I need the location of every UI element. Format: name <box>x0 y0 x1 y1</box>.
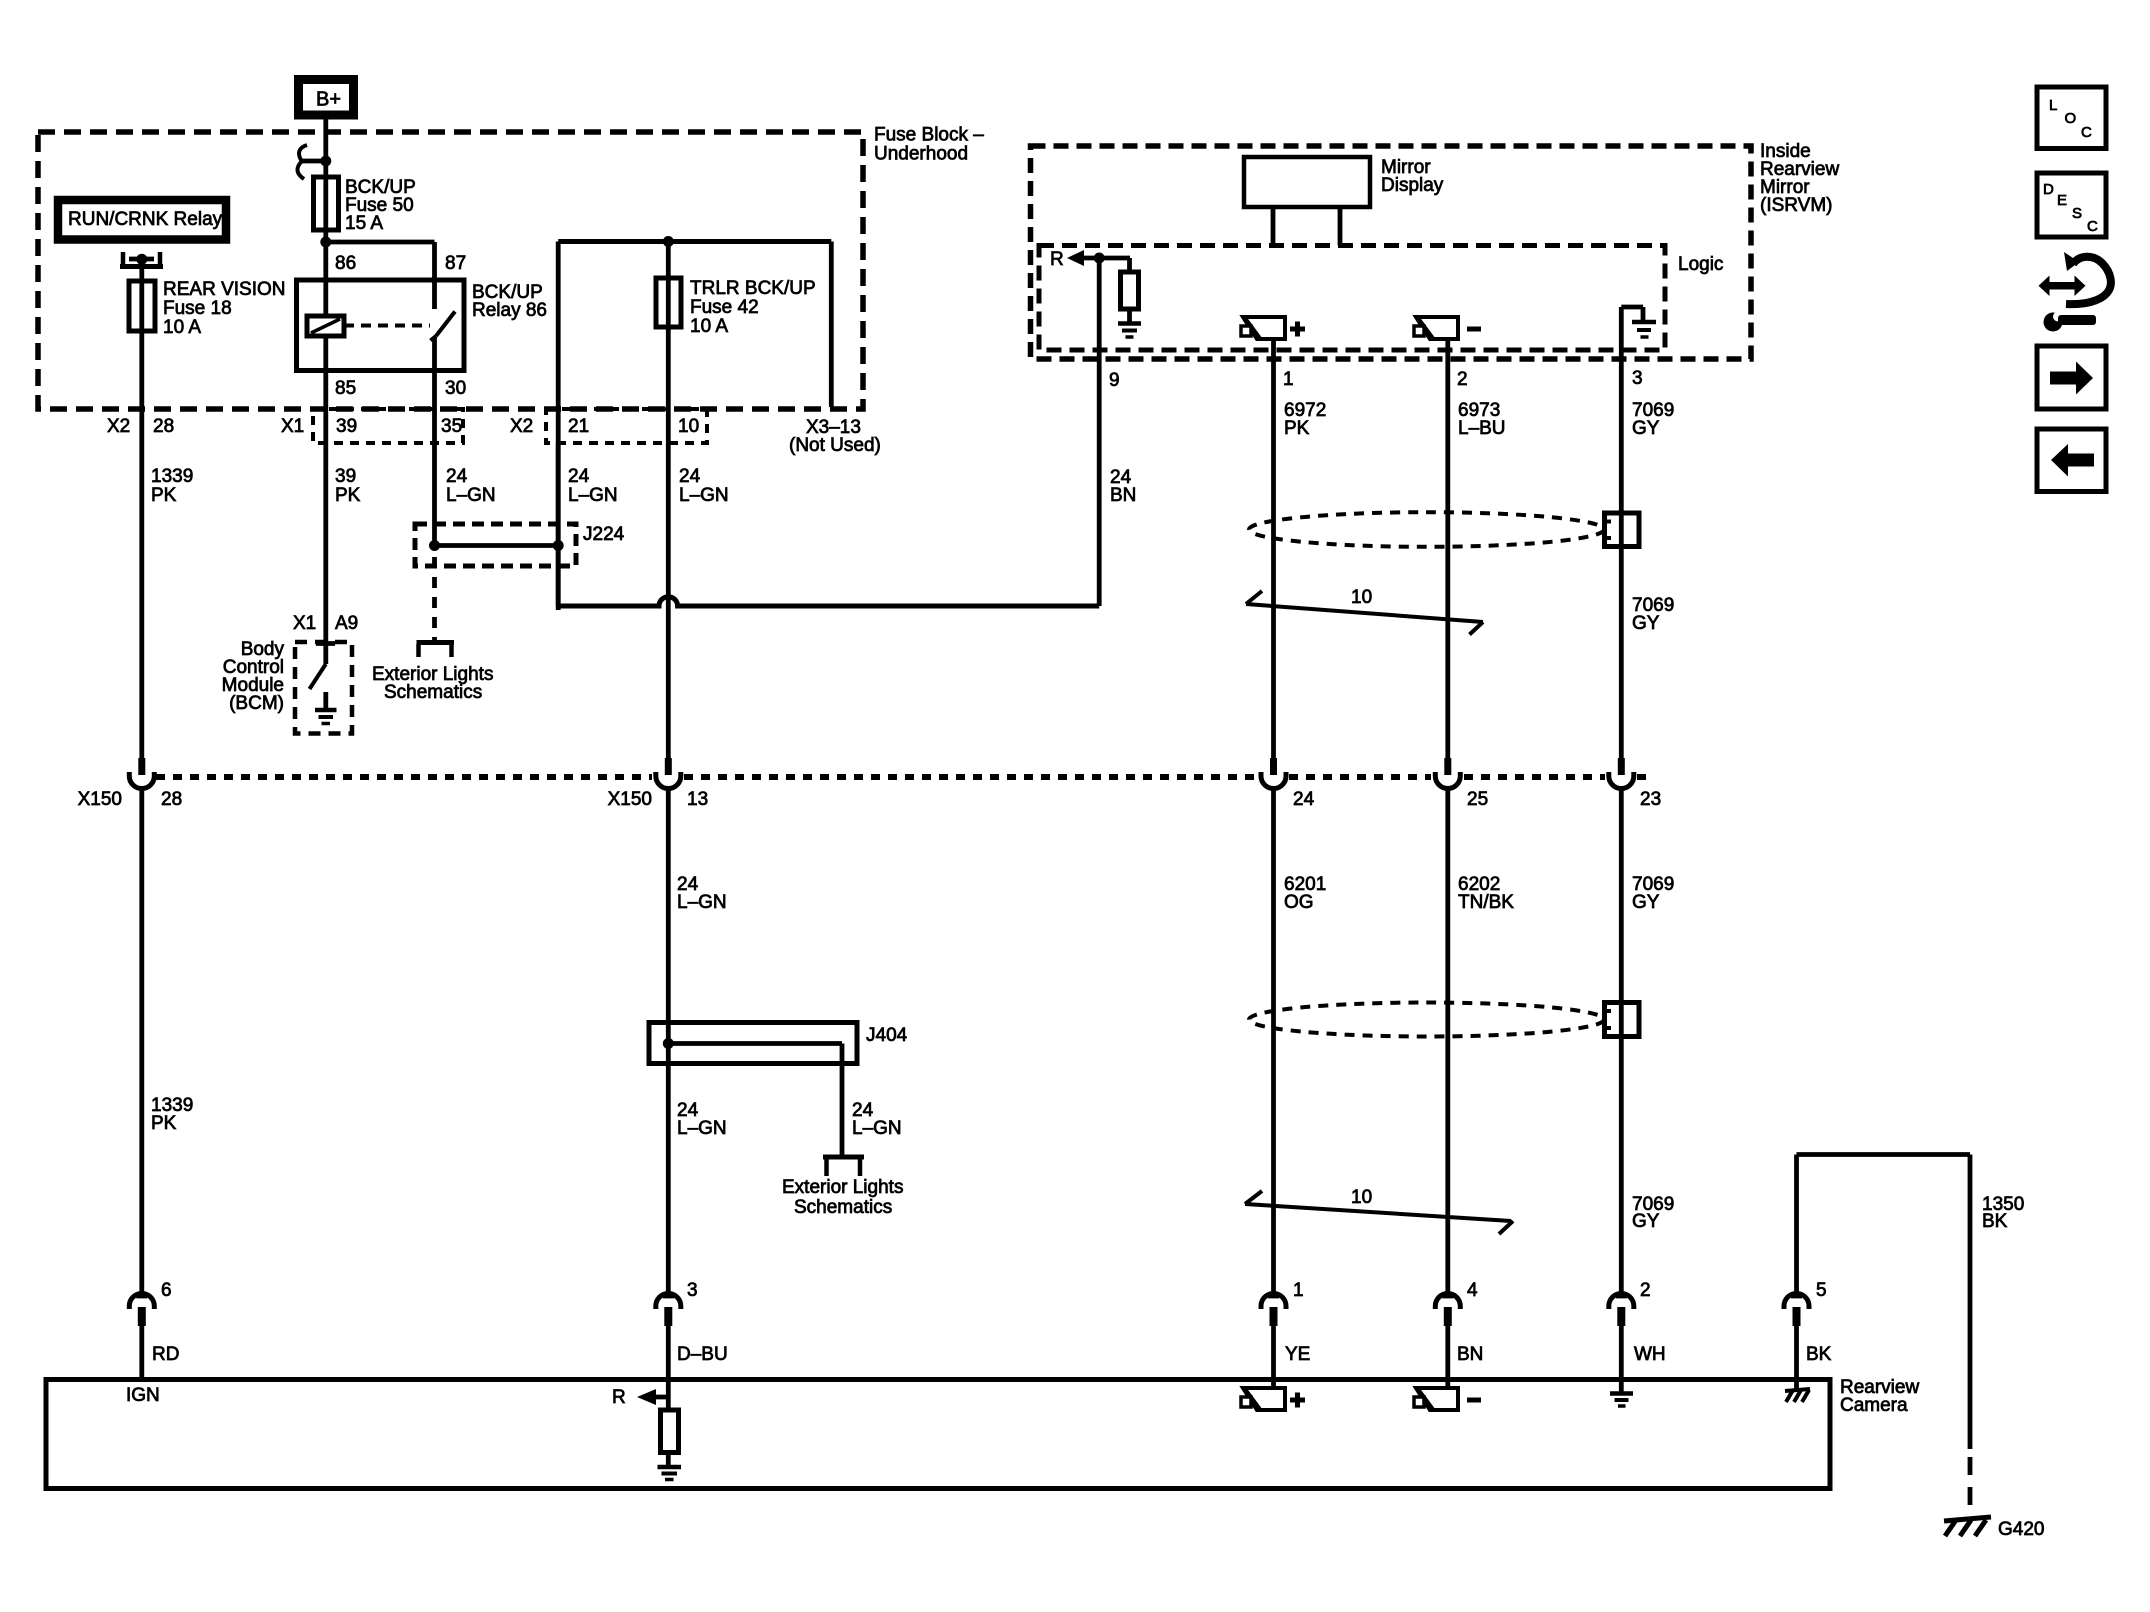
svg-text:BK: BK <box>1806 1344 1832 1365</box>
relay K - BCK/UP Relay 86 box <box>297 280 465 371</box>
rearview camera box <box>46 1380 1830 1489</box>
mirror display box <box>1244 157 1370 207</box>
connector X1 dashed outline <box>313 409 463 443</box>
wire X150-13 down to splice J404 <box>666 789 671 1294</box>
shield termination box lower <box>1605 1003 1640 1037</box>
svg-text:BN: BN <box>1457 1344 1483 1365</box>
camera internal ground symbol <box>658 1465 682 1470</box>
svg-text:X2: X2 <box>510 416 533 437</box>
camera connector pin 1 <box>1268 1294 1279 1299</box>
svg-text:D–BU: D–BU <box>677 1344 728 1365</box>
svg-text:86: 86 <box>335 253 356 274</box>
BCM internal ground <box>323 692 328 709</box>
svg-text:Exterior Lights: Exterior Lights <box>782 1177 903 1198</box>
svg-text:10: 10 <box>1351 587 1372 608</box>
twisted/shield ellipse upper <box>1249 512 1604 547</box>
svg-text:85: 85 <box>335 378 356 399</box>
svg-text:25: 25 <box>1467 789 1488 810</box>
wire logic ground to pin 3 <box>1619 352 1624 760</box>
svg-text:TN/BK: TN/BK <box>1458 892 1514 913</box>
resistor in logic module <box>1121 272 1139 309</box>
wire pin to camera box <box>139 1326 144 1380</box>
svg-text:BK: BK <box>1982 1211 2008 1232</box>
svg-text:Display: Display <box>1381 175 1444 196</box>
svg-text:R: R <box>612 1387 626 1408</box>
inside rearview mirror ISRVM dashed enclosure <box>1031 146 1752 359</box>
svg-text:Fuse Block –: Fuse Block – <box>874 125 984 146</box>
svg-text:L–BU: L–BU <box>1458 418 1506 439</box>
minus sign camera <box>1467 1398 1481 1403</box>
wire 1350 BK loop <box>1797 1152 1971 1157</box>
svg-text:BN: BN <box>1110 485 1136 506</box>
wire X150-28 down to camera pin 6 <box>139 789 144 1294</box>
svg-text:1: 1 <box>1283 369 1294 390</box>
camera connector pin 4 <box>1442 1294 1453 1299</box>
svg-text:GY: GY <box>1632 1211 1660 1232</box>
junction dot below B+ <box>320 156 331 167</box>
relay coil-contact dashed linkage <box>344 324 430 328</box>
mirror display stub left <box>1271 207 1276 246</box>
twisted/shield ellipse lower <box>1249 1003 1604 1037</box>
mirror display stub right <box>1338 207 1343 246</box>
svg-text:(Not Used): (Not Used) <box>789 435 881 456</box>
svg-text:Underhood: Underhood <box>874 144 968 165</box>
svg-text:21: 21 <box>568 416 589 437</box>
svg-text:10: 10 <box>1351 1187 1372 1208</box>
wire X150-23 down to camera pin 2 <box>1619 789 1624 1294</box>
svg-text:2: 2 <box>1457 369 1468 390</box>
chassis ground G420 <box>1944 1517 1991 1521</box>
BCM internal switch <box>323 648 328 664</box>
svg-text:15 A: 15 A <box>345 213 383 234</box>
wire J404 branch down <box>840 1063 845 1155</box>
svg-text:X150: X150 <box>608 789 652 810</box>
junction dot on TRLR feed <box>663 236 674 247</box>
svg-text:R: R <box>1050 249 1064 270</box>
camera connector pin 2 <box>1616 1294 1627 1299</box>
svg-text:(ISRVM): (ISRVM) <box>1760 195 1832 216</box>
svg-text:13: 13 <box>687 789 708 810</box>
wire Fuse 18 down to X2-28 <box>139 331 144 760</box>
svg-text:X1: X1 <box>293 613 316 634</box>
svg-text:10: 10 <box>678 416 699 437</box>
logic resistor ground symbol <box>1118 321 1141 326</box>
svg-text:A9: A9 <box>335 613 358 634</box>
icon LOC box <box>2037 87 2106 149</box>
svg-text:28: 28 <box>161 789 182 810</box>
svg-text:3: 3 <box>687 1280 698 1301</box>
BCM pin tick <box>316 641 335 646</box>
splice J404 tie line <box>668 1041 842 1046</box>
svg-text:RD: RD <box>152 1344 179 1365</box>
svg-text:L–GN: L–GN <box>568 485 618 506</box>
inline connector X150-24 <box>1270 758 1277 775</box>
logic dashed box <box>1039 246 1665 351</box>
svg-text:D: D <box>2043 181 2054 198</box>
RUN/CRNK Relay reference box <box>58 200 226 240</box>
splice J224 dashed box <box>415 524 576 566</box>
svg-text:L–GN: L–GN <box>852 1118 902 1139</box>
svg-text:1339: 1339 <box>151 466 193 487</box>
svg-text:2: 2 <box>1640 1280 1651 1301</box>
svg-text:IGN: IGN <box>126 1385 160 1406</box>
camera - symbol <box>1416 1388 1458 1410</box>
svg-text:REAR VISION: REAR VISION <box>163 279 285 300</box>
svg-text:24: 24 <box>1293 789 1315 810</box>
svg-text:87: 87 <box>445 253 466 274</box>
svg-text:24: 24 <box>446 466 468 487</box>
logic ground symbol <box>1619 307 1624 352</box>
wire relay pin 30 down <box>432 338 437 547</box>
svg-text:C: C <box>2087 218 2098 235</box>
dashed wire to G420 <box>1968 1457 1973 1517</box>
svg-text:X2: X2 <box>107 416 130 437</box>
svg-text:WH: WH <box>1634 1344 1666 1365</box>
wire pin 85 down to BCM <box>323 370 328 648</box>
camera + symbol <box>1243 1388 1285 1410</box>
body control module BCM dashed box <box>295 642 352 734</box>
svg-text:X150: X150 <box>78 789 122 810</box>
svg-text:Fuse 42: Fuse 42 <box>690 297 759 318</box>
wire corner down to resistor <box>1127 258 1132 272</box>
wire fuse 50 to relay pin 86 <box>323 230 328 316</box>
fuse block bus fork under RUN/CRNK relay <box>121 252 126 267</box>
camera R arrowhead <box>637 1389 656 1405</box>
svg-text:YE: YE <box>1285 1344 1310 1365</box>
fuse F50 BCK/UP (15 A) <box>314 177 339 230</box>
svg-text:G420: G420 <box>1998 1519 2044 1540</box>
fuse F42 TRLR BCK/UP (10 A) <box>656 278 681 327</box>
svg-text:GY: GY <box>1632 613 1660 634</box>
icon back arrow box <box>2037 429 2106 492</box>
resistor ground lead <box>1127 309 1132 322</box>
svg-text:9: 9 <box>1109 370 1120 391</box>
wire pin to camera box <box>1794 1326 1799 1380</box>
off-page connector exterior lights (upper) <box>417 640 455 645</box>
svg-text:B+: B+ <box>316 89 341 111</box>
battery feed B+ terminal <box>299 80 354 116</box>
svg-text:6: 6 <box>161 1280 172 1301</box>
svg-text:1: 1 <box>1293 1280 1304 1301</box>
icon forward arrow box <box>2037 346 2106 409</box>
svg-text:Schematics: Schematics <box>794 1197 892 1218</box>
svg-text:10 A: 10 A <box>163 317 201 338</box>
camera ground pin 2 symbol <box>1619 1380 1624 1392</box>
camera connector pin 3 <box>663 1294 674 1299</box>
fuse F18 REAR VISION (10 A) <box>129 281 155 331</box>
svg-text:J404: J404 <box>866 1025 908 1046</box>
svg-text:Fuse 18: Fuse 18 <box>163 298 232 319</box>
wire relay coil to pin 85 <box>323 336 328 370</box>
svg-text:L–GN: L–GN <box>677 1118 727 1139</box>
svg-text:GY: GY <box>1632 892 1660 913</box>
relay coil <box>307 316 344 336</box>
svg-text:J224: J224 <box>583 524 625 545</box>
camera resistor ground lead <box>666 1453 671 1466</box>
svg-text:(BCM): (BCM) <box>229 693 284 714</box>
svg-text:PK: PK <box>151 485 177 506</box>
svg-text:5: 5 <box>1816 1280 1827 1301</box>
wire logic camera+ to pin 1 <box>1271 339 1276 760</box>
dashed wire to exterior lights schematics <box>432 557 437 640</box>
junction dot at relay feed <box>320 237 331 248</box>
svg-text:L–GN: L–GN <box>446 485 496 506</box>
off-page connector exterior lights (lower) <box>823 1155 864 1160</box>
horizontal wire run to ISRVM pin 9 with hop <box>558 597 1099 606</box>
svg-text:RUN/CRNK Relay: RUN/CRNK Relay <box>68 209 223 230</box>
wire camera R to resistor <box>666 1380 671 1410</box>
plus sign camera <box>1290 1398 1305 1403</box>
camera chassis ground pin 5 symbol <box>1794 1380 1799 1389</box>
svg-text:PK: PK <box>1284 418 1310 439</box>
camera - symbol in logic box <box>1416 317 1458 339</box>
splice J224 tie line <box>435 543 559 548</box>
svg-text:30: 30 <box>445 378 466 399</box>
svg-text:C: C <box>2081 124 2092 141</box>
icon DESC box <box>2037 173 2106 237</box>
camera internal resistor <box>661 1410 679 1453</box>
relay contact blade <box>436 312 455 337</box>
svg-text:O: O <box>2065 110 2077 127</box>
svg-text:L: L <box>2049 97 2057 114</box>
wire pin to camera box <box>1619 1326 1624 1380</box>
svg-text:TRLR BCK/UP: TRLR BCK/UP <box>690 278 816 299</box>
svg-text:39: 39 <box>336 416 357 437</box>
svg-text:S: S <box>2072 205 2082 222</box>
svg-text:OG: OG <box>1284 892 1314 913</box>
inline connector X150-13 <box>665 758 672 775</box>
svg-text:24: 24 <box>568 466 590 487</box>
svg-text:23: 23 <box>1640 789 1661 810</box>
svg-text:Logic: Logic <box>1678 254 1723 275</box>
wire ISRVM pin 9 riser 24 BN <box>1097 258 1102 606</box>
splice J404 box <box>649 1023 857 1064</box>
shield termination box upper <box>1605 513 1640 547</box>
svg-text:X1: X1 <box>281 416 304 437</box>
wire TRLR feed to splice row <box>556 443 561 606</box>
inline connector X150-23 <box>1618 758 1625 775</box>
svg-text:GY: GY <box>1632 418 1660 439</box>
svg-text:L–GN: L–GN <box>679 485 729 506</box>
svg-text:Relay 86: Relay 86 <box>472 300 547 321</box>
svg-text:39: 39 <box>335 466 356 487</box>
icon service tools <box>2048 282 2076 290</box>
camera connector pin 6 <box>136 1294 147 1299</box>
svg-text:Schematics: Schematics <box>384 682 482 703</box>
fuse block - underhood dashed enclosure <box>38 132 863 409</box>
inline connector X150-28 <box>138 758 145 775</box>
minus sign <box>1467 327 1481 332</box>
inline connector X150-25 <box>1444 758 1451 775</box>
wire R arrow to resistor corner <box>1080 256 1130 261</box>
TRLR BCK/UP feed solid box <box>558 239 831 244</box>
connector X2 dashed outline (pins 21 10) <box>546 409 707 443</box>
svg-text:E: E <box>2057 192 2067 209</box>
svg-text:Camera: Camera <box>1840 1395 1908 1416</box>
wire pin to camera box <box>666 1326 671 1380</box>
fusible link hook splice <box>299 145 307 160</box>
plus sign <box>1290 327 1305 332</box>
svg-text:4: 4 <box>1467 1280 1478 1301</box>
svg-text:PK: PK <box>335 485 361 506</box>
svg-text:28: 28 <box>153 416 174 437</box>
junction dot pin 9 wire <box>1094 253 1105 264</box>
wire pin to camera box <box>1271 1326 1276 1388</box>
wire pin to camera box <box>1445 1326 1450 1388</box>
wire from bus to Fuse 18 <box>139 259 144 281</box>
camera + symbol in logic box <box>1243 317 1285 339</box>
camera connector pin 5 <box>1791 1294 1802 1299</box>
wire X150-25 down to camera pin 4 <box>1445 789 1450 1294</box>
svg-text:10 A: 10 A <box>690 316 728 337</box>
svg-text:24: 24 <box>679 466 701 487</box>
wire junction to relay pin 87 <box>326 240 435 245</box>
R arrowhead <box>1067 250 1084 266</box>
wire B+ down to fusible link <box>323 119 328 177</box>
wire logic camera- to pin 2 <box>1445 339 1450 760</box>
wire X150-24 down to camera pin 1 <box>1271 789 1276 1294</box>
svg-text:35: 35 <box>441 416 462 437</box>
svg-text:PK: PK <box>151 1113 177 1134</box>
svg-text:3: 3 <box>1632 368 1643 389</box>
svg-text:L–GN: L–GN <box>677 892 727 913</box>
connector X150 dotted line <box>156 774 652 780</box>
